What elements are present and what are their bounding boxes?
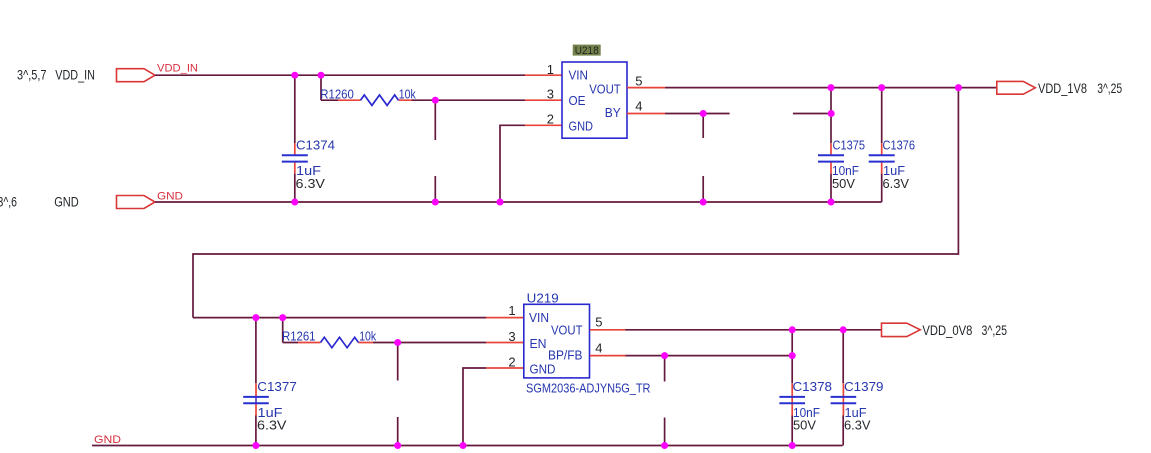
pin 3 stub U218 [525,99,562,101]
wire stub below node BPFB lower [664,418,666,446]
wire C1379 bottom vertical [842,416,844,446]
wire stub below node R1260-right lower [434,176,436,202]
wire BY net right [793,113,831,115]
wire U219 GND pin2 path [463,368,486,446]
wire C1378 top vertical [791,330,793,384]
svg-text:VIN: VIN [529,310,549,325]
svg-text:VIN: VIN [569,68,589,83]
refdes U218 highlighted [573,45,601,57]
SECTION-TOP [0,45,1122,318]
svg-text:C1377: C1377 [257,379,297,394]
svg-text:U218: U218 [575,45,599,57]
pin 1 stub U218 [525,74,562,76]
svg-text:3^,6: 3^,6 [0,195,17,210]
wire stub below node R1261-right lower [397,417,399,446]
svg-text:U219: U219 [527,291,559,306]
svg-text:VOUT: VOUT [589,81,621,96]
wire C1376 top vertical [881,88,883,144]
svg-text:VDD_1V8: VDD_1V8 [1038,81,1087,96]
wire C1377 bottom vertical [255,416,257,446]
svg-text:2: 2 [547,112,554,127]
svg-text:C1374: C1374 [296,137,335,152]
wire GND rail bottom [92,445,843,447]
svg-text:3: 3 [508,329,515,344]
svg-text:GND: GND [54,195,79,210]
svg-text:GND: GND [530,362,556,377]
wire C1374 top vertical [294,75,296,143]
svg-text:6.3V: 6.3V [296,176,326,191]
port VDD_0V8 [882,323,921,336]
svg-text:C1375: C1375 [833,137,866,152]
capacitor C1374 [282,143,308,173]
svg-text:C1376: C1376 [883,137,916,152]
svg-text:GND: GND [94,434,121,446]
svg-text:5: 5 [635,73,642,88]
wire C1377 top vertical [255,318,257,384]
port GND [117,196,156,209]
wire VDD_IN horizontal [155,74,525,76]
wire R1261 to pin3 [373,342,486,344]
svg-text:6.3V: 6.3V [844,418,871,433]
wire stub below node R1260-right upper [434,100,436,140]
capacitor C1378 [779,384,805,416]
pin 4 stub U218 [627,113,665,115]
wire VDD_1V8 net [665,87,997,89]
svg-text:SGM2036-ADJYN5G_TR: SGM2036-ADJYN5G_TR [526,380,651,395]
wire stub below node BY upper [702,114,704,139]
svg-text:C1378: C1378 [793,379,833,394]
SECTION-BOTTOM [92,291,1007,450]
wire C1375 top vertical [830,88,832,144]
pin 3 stub U219 [486,342,523,344]
svg-text:VOUT: VOUT [551,323,583,338]
pin 2 stub U219 [486,367,523,369]
svg-text:10k: 10k [359,329,376,344]
wire stub below node R1261-right upper [397,343,399,381]
wire C1376 bottom vertical [881,174,883,202]
svg-text:VDD_0V8: VDD_0V8 [922,323,972,338]
pin 5 stub U219 [590,329,626,331]
wire C1374 bottom vertical [294,174,296,202]
port VDD_1V8 [997,81,1036,94]
svg-text:R1261: R1261 [282,329,316,344]
pin 1 stub U219 [486,317,523,319]
resistor R1260 [338,95,412,105]
svg-text:OE: OE [569,93,586,108]
wire second stage input [193,317,486,319]
capacitor C1379 [831,384,857,416]
svg-text:R1260: R1260 [320,86,354,101]
svg-text:3: 3 [547,87,554,102]
junction dots bottom [252,314,846,449]
svg-text:GND: GND [569,118,594,133]
svg-text:50V: 50V [832,176,855,191]
svg-text:GND: GND [157,190,183,202]
wire stub below node BY lower [702,176,704,202]
wire BY net left [665,113,730,115]
wire link VDD_1V8 down to second stage [193,88,958,318]
svg-text:4: 4 [595,341,602,356]
port VDD_IN [117,69,156,82]
svg-text:VDD_IN: VDD_IN [157,63,198,75]
pin 4 stub U219 [590,355,626,357]
wire BP/FB net [626,355,793,357]
wire C1378 bottom vertical [791,416,793,446]
svg-text:3^,5,7: 3^,5,7 [17,67,47,82]
svg-text:3^,25: 3^,25 [1097,81,1122,96]
junction dots top [291,72,962,206]
pin 5 stub U218 [627,87,665,89]
wire GND rail top [155,201,882,203]
pin 2 stub U218 [525,124,562,126]
svg-text:50V: 50V [793,418,816,433]
svg-text:4: 4 [635,98,642,113]
svg-text:EN: EN [530,336,547,351]
wire C1379 top vertical [842,330,844,384]
svg-text:VDD_IN: VDD_IN [55,67,95,82]
svg-text:BY: BY [605,105,621,120]
svg-text:1: 1 [547,62,554,77]
wire C1375 bottom vertical [830,174,832,202]
svg-text:BP/FB: BP/FB [548,348,583,363]
capacitor C1375 [818,143,844,173]
svg-text:C1379: C1379 [844,379,884,394]
IC U218 body [562,62,627,138]
wire VDD_0V8 net [626,329,882,331]
capacitor C1376 [869,143,895,173]
wire R1261 drop vertical [283,318,298,343]
capacitor C1377 [243,384,269,416]
wire R1260 to pin3 [412,99,526,101]
resistor R1261 [298,337,373,347]
svg-text:2: 2 [508,354,515,369]
wire stub below node BPFB upper [664,356,666,382]
IC U219 body [524,304,590,378]
wire R1260 drop vertical [321,75,338,100]
svg-text:5: 5 [595,315,602,330]
wire U218 GND pin2 path [500,125,525,202]
svg-text:6.3V: 6.3V [883,176,910,191]
svg-text:1: 1 [508,303,515,318]
svg-text:10k: 10k [399,86,416,101]
svg-text:6.3V: 6.3V [257,418,287,433]
svg-text:3^,25: 3^,25 [982,323,1008,338]
